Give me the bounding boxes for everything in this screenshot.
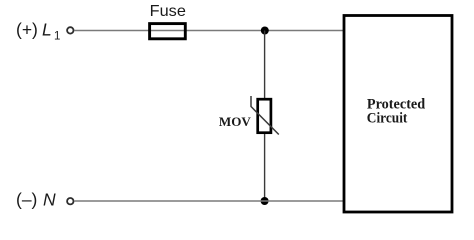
node N label "(-) N" — [16, 190, 56, 210]
wire: L1 terminal to protected circuit (top rail) — [75, 30, 344, 32]
label Protected Circuit — [367, 96, 426, 126]
svg-text:(+): (+) — [16, 20, 43, 40]
node L1 label "(+) L1" — [16, 20, 60, 43]
junction dot (bottom, node B) — [261, 197, 269, 205]
wire: N terminal to protected circuit (bottom rail) — [75, 200, 344, 202]
svg-text:Circuit: Circuit — [367, 111, 408, 127]
svg-text:MOV: MOV — [219, 115, 251, 129]
terminal N (open circle) — [67, 198, 73, 204]
terminal L1 (open circle) — [67, 27, 73, 33]
fuse F1 (rectangle on top rail) — [150, 24, 186, 39]
svg-text:N: N — [43, 190, 56, 210]
svg-text:L: L — [42, 20, 52, 40]
varistor RV1 body (MOV rectangle) — [258, 99, 271, 133]
varistor RV1 diagonal stroke with tail — [251, 96, 279, 135]
junction dot (top, node A) — [261, 27, 269, 35]
svg-text:Fuse: Fuse — [150, 3, 186, 20]
svg-text:(–): (–) — [16, 190, 42, 210]
wire: vertical branch from top junction to bottom junction (through MOV) — [264, 31, 266, 202]
svg-text:1: 1 — [54, 31, 60, 43]
protected circuit block U1 — [344, 16, 452, 213]
